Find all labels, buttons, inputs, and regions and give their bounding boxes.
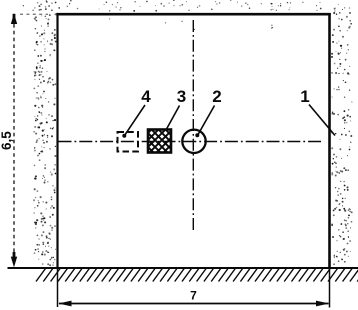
svg-text:2: 2 [212,87,221,106]
svg-text:3: 3 [177,87,186,106]
svg-text:4: 4 [141,87,151,106]
svg-text:1: 1 [300,87,309,106]
svg-text:6,5: 6,5 [0,131,14,150]
svg-text:7: 7 [190,289,197,303]
